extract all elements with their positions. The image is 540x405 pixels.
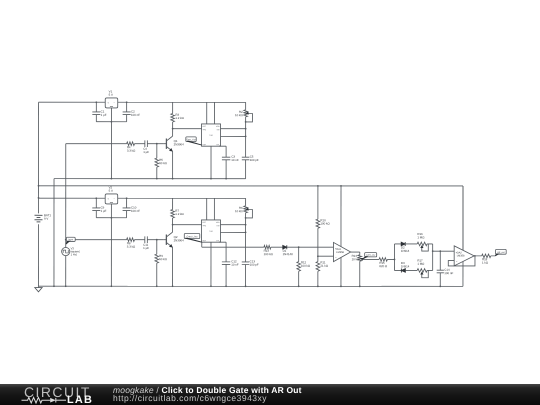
svg-text:−: − — [335, 256, 337, 259]
svg-text:1N4148: 1N4148 — [283, 252, 294, 256]
wire timer right pins — [221, 128, 246, 130]
resistor R8 3.3k — [127, 238, 135, 242]
svg-text:10 kΩ: 10 kΩ — [235, 209, 243, 213]
capacitor C10 — [123, 207, 131, 209]
wire OA1 inverting input — [318, 255, 334, 257]
svg-text:3.3 kΩ: 3.3 kΩ — [127, 245, 136, 249]
wire +V top rail block 1 — [39, 101, 246, 103]
resistor R9 50k — [156, 240, 158, 254]
signal source V3 square 1Hz — [62, 247, 70, 255]
flag GAT1_Div — [365, 253, 377, 257]
resistor R11 21k to ground — [316, 262, 320, 272]
wire trigger input row block 1 — [66, 143, 127, 145]
svg-text:AR_out: AR_out — [497, 251, 505, 254]
svg-text:GAT1_Div: GAT1_Div — [366, 254, 375, 257]
svg-text:50 kΩ: 50 kΩ — [159, 257, 167, 261]
wire collector to timer — [173, 128, 202, 130]
svg-text:100 nF: 100 nF — [131, 209, 140, 213]
op-amp OA1 LM358 — [333, 242, 350, 261]
transistor Q2 2N3904 — [165, 235, 167, 245]
svg-text:1N914: 1N914 — [401, 249, 410, 253]
capacitor C13 100pF — [245, 218, 247, 262]
svg-text:100 kΩ: 100 kΩ — [320, 222, 330, 226]
capacitor C3 10nF — [219, 145, 226, 147]
wire OA1 output — [351, 251, 360, 253]
op-amp OA2 LM358 — [454, 246, 474, 266]
wire gate2 output — [201, 242, 203, 247]
svg-text:3.3 kΩ: 3.3 kΩ — [127, 149, 136, 153]
wire OA2 output — [474, 255, 482, 257]
battery BAT1 9V — [34, 214, 42, 216]
wire main ground rail — [38, 285, 462, 287]
wire OA2 V+ supply — [462, 186, 464, 250]
wire V1 minus lead — [110, 108, 112, 179]
svg-text:1 MΩ: 1 MΩ — [417, 235, 425, 239]
flag Gate2_Out block2 — [184, 233, 200, 238]
wire decoupling loop block 2 — [95, 198, 97, 208]
resistor R15 820 — [379, 258, 387, 262]
wire input net vertical — [65, 144, 67, 248]
svg-text:1 Hz): 1 Hz) — [71, 252, 78, 256]
wire timer top pins — [206, 198, 208, 220]
wire OA2 V- to ground — [462, 261, 464, 286]
node attack-release right — [432, 244, 434, 271]
wire decoupling loop block 1 — [95, 102, 97, 112]
capacitor C9 — [92, 207, 100, 209]
svg-text:9 V: 9 V — [44, 217, 48, 221]
resistor R3 collector — [172, 102, 174, 113]
flag Input — [66, 237, 75, 241]
svg-text:RST: RST — [203, 126, 206, 128]
diode D1 1N4148 — [283, 245, 287, 249]
wire timer ground pin — [210, 146, 212, 178]
svg-text:2N3904: 2N3904 — [174, 142, 185, 146]
timer IC U2 555 — [201, 220, 220, 242]
CircuitLab logo — [0, 384, 110, 405]
svg-text:Input: Input — [68, 238, 73, 241]
resistor R18 1k — [482, 254, 491, 258]
svg-text:1 µF: 1 µF — [101, 113, 107, 117]
wire timer right pins — [220, 224, 245, 226]
svg-text:RST: RST — [202, 222, 205, 224]
flag AR_out — [496, 249, 507, 254]
svg-text:−: − — [456, 260, 458, 263]
resistor R10 100k from +9V — [317, 186, 319, 219]
flag Gate_Out block1 — [186, 137, 196, 142]
svg-text:100 kΩ: 100 kΩ — [301, 264, 311, 268]
svg-text:21 kΩ: 21 kΩ — [320, 264, 328, 268]
trimmer R16 1M attack — [417, 242, 427, 246]
svg-text:OUT: OUT — [203, 144, 207, 146]
ground symbol — [37, 286, 39, 287]
potentiometer R14 10k — [358, 255, 362, 261]
svg-text:10 nF: 10 nF — [231, 158, 239, 162]
wire +V top rail block 2 — [39, 197, 246, 199]
svg-text:10 kΩ: 10 kΩ — [352, 257, 360, 261]
svg-text:5 V: 5 V — [109, 93, 113, 97]
wire wiper to R15 — [363, 258, 379, 260]
svg-text:Gate_Out: Gate_Out — [186, 138, 196, 141]
svg-text:1.2 kΩ: 1.2 kΩ — [175, 212, 184, 216]
trimmer R17 1M release — [417, 269, 427, 273]
svg-text:1 µF: 1 µF — [143, 150, 149, 154]
svg-text:Gate2_Out: Gate2_Out — [187, 235, 198, 238]
resistor R13 100k — [264, 245, 271, 249]
resistor R5 50k — [156, 144, 158, 158]
svg-text:1N914: 1N914 — [401, 264, 410, 268]
wire timer top pins — [206, 102, 208, 124]
svg-text:1 kΩ: 1 kΩ — [482, 261, 489, 265]
voltage source V1 — [105, 98, 118, 108]
wire V2 minus lead — [110, 204, 112, 286]
capacitor C12 10nF — [219, 241, 226, 243]
resistor R12 100k to ground — [298, 247, 300, 261]
svg-text:LM358: LM358 — [336, 251, 344, 254]
capacitor C4 1uF — [144, 140, 146, 147]
transistor Q1 2N3904 — [165, 139, 167, 149]
potentiometer R6 10k — [245, 198, 247, 206]
svg-text:820 Ω: 820 Ω — [379, 264, 388, 268]
svg-text:LM358: LM358 — [457, 254, 465, 257]
svg-text:50 kΩ: 50 kΩ — [159, 161, 167, 165]
capacitor C2 — [123, 111, 131, 113]
svg-text:1 MΩ: 1 MΩ — [417, 262, 425, 266]
svg-text:OUT: OUT — [202, 240, 206, 242]
wire source to ground — [65, 256, 67, 287]
potentiometer R2 10k — [245, 102, 247, 110]
timer IC U1 555 — [202, 124, 221, 146]
resistor R4 3.3k — [127, 142, 135, 146]
wire block1 ground rail — [54, 178, 246, 180]
diode D2 1N914 attack — [394, 243, 401, 245]
diode D3 1N914 release — [394, 269, 401, 271]
svg-text:5 V: 5 V — [109, 189, 113, 193]
wire OA1 V+ supply — [340, 186, 342, 247]
svg-text:100 pF: 100 pF — [250, 158, 259, 162]
svg-text:1 µF: 1 µF — [143, 246, 149, 250]
wire AR node to OA2 — [433, 250, 455, 252]
capacitor C14 100nF — [439, 251, 441, 270]
voltage source V2 — [105, 194, 118, 204]
wire collector to timer — [173, 224, 202, 226]
svg-text:100 pF: 100 pF — [250, 263, 259, 267]
wire OA1 V- to ground — [340, 257, 342, 286]
svg-text:100 nF: 100 nF — [444, 271, 453, 275]
wire left supply rail — [37, 102, 39, 213]
svg-text:2N3904: 2N3904 — [174, 238, 185, 242]
capacitor C5 100pF — [245, 122, 247, 157]
capacitor C1 — [92, 111, 100, 113]
svg-text:100 nF: 100 nF — [131, 113, 140, 117]
node attack-release left — [393, 244, 395, 270]
wire timer ground pin — [210, 242, 212, 286]
capacitor C11 1uF — [144, 236, 146, 243]
wire OA2 feedback loop — [448, 256, 475, 266]
svg-text:100 kΩ: 100 kΩ — [264, 252, 274, 256]
wire +9V distribution — [39, 185, 463, 187]
resistor R7 collector — [172, 198, 174, 209]
svg-text:1 µF: 1 µF — [101, 209, 107, 213]
svg-text:1.2 kΩ: 1.2 kΩ — [175, 116, 184, 120]
svg-text:10 nF: 10 nF — [231, 263, 239, 267]
wire block1 ground drop — [53, 179, 55, 287]
svg-text:10 kΩ: 10 kΩ — [235, 113, 243, 117]
wire trigger input row block 2 — [66, 239, 127, 241]
